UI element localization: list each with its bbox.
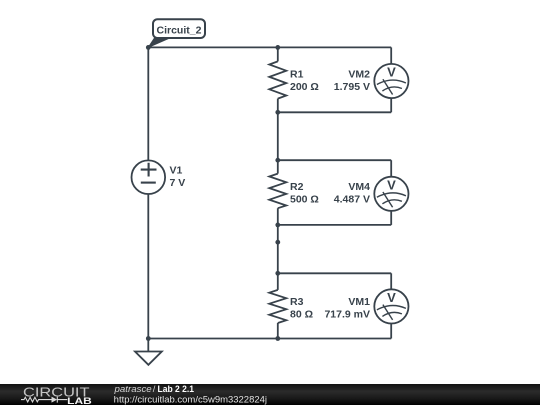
svg-text:V: V — [387, 177, 396, 192]
VM2 needle — [383, 79, 393, 94]
svg-text:Circuit_2: Circuit_2 — [157, 24, 202, 36]
VM4 meter arcs — [377, 193, 406, 204]
svg-text:LAB: LAB — [67, 396, 92, 405]
svg-text:80 Ω: 80 Ω — [290, 309, 313, 321]
wire: VM1 top stub — [390, 273, 392, 289]
svg-text:R2: R2 — [290, 181, 304, 193]
voltmeter VM1 circle — [374, 289, 408, 323]
wire: VM2 bottom stub — [390, 98, 392, 112]
node: R3 bottom junction — [275, 336, 280, 341]
node A (top-left, flag anchor) — [146, 45, 151, 50]
node: R1 bottom junction — [275, 110, 280, 115]
V1 minus sign — [141, 182, 156, 184]
wire: loop3 top horizontal — [278, 272, 391, 274]
voltmeter VM2 circle — [374, 64, 408, 98]
wire: bottom horizontal (R3 bottom to VM1 branch) — [278, 338, 391, 340]
V1 plus sign — [141, 163, 157, 177]
node: R1 top junction — [275, 45, 280, 50]
junction dots — [146, 45, 280, 341]
svg-text:200 Ω: 200 Ω — [290, 81, 319, 93]
wire: R3 bottom stub — [277, 323, 279, 339]
svg-text:VM1: VM1 — [348, 296, 370, 308]
VM1 meter arcs — [377, 305, 406, 316]
resistor R2 zigzag — [269, 174, 286, 209]
VM4 needle — [383, 192, 393, 207]
wire: R1 top stub — [277, 47, 279, 61]
node: R2 bottom junction — [275, 223, 280, 228]
wire: VM4 top stub — [390, 160, 392, 177]
wire: resistor column between loop1 and loop2 — [277, 112, 279, 160]
wire: VM1 bottom stub — [390, 323, 392, 338]
svg-text:V: V — [387, 65, 396, 80]
logo resistor zigzag and diode — [21, 397, 67, 403]
VM2 meter arcs — [377, 80, 406, 91]
wire: resistor column between loop2 and loop3 — [277, 225, 279, 273]
wire: R2 top stub — [277, 160, 279, 173]
wire: loop2 top horizontal — [278, 159, 391, 161]
wire: R2 bottom stub — [277, 208, 279, 225]
wire: top horizontal from node A to meter column — [148, 46, 391, 48]
wire: left vertical lower (V1 bottom to ground node) — [147, 194, 149, 339]
voltage source V1 circle — [132, 160, 166, 194]
svg-text:http://circuitlab.com/c5w9m332: http://circuitlab.com/c5w9m3322824j — [114, 394, 267, 404]
wire: loop2 bottom horizontal — [278, 224, 391, 226]
flag Circuit_2 box — [153, 19, 205, 38]
svg-text:/: / — [153, 383, 156, 394]
svg-text:R3: R3 — [290, 296, 304, 308]
ground triangle — [135, 352, 162, 365]
svg-text:R1: R1 — [290, 69, 304, 81]
flag Circuit_2 tail — [148, 37, 173, 48]
node: R2 top junction — [275, 158, 280, 163]
svg-text:1.795 V: 1.795 V — [334, 81, 370, 93]
wire: bottom horizontal (ground node to R3 bottom) — [148, 338, 277, 340]
svg-text:V1: V1 — [170, 165, 183, 177]
wire: R1 bottom stub — [277, 99, 279, 113]
svg-text:patrasce: patrasce — [113, 383, 151, 394]
resistor R3 zigzag — [269, 290, 286, 323]
node: mid dot between loop2 and loop3 — [275, 240, 280, 245]
resistor R1 zigzag — [269, 61, 286, 98]
node: ground junction — [146, 336, 151, 341]
voltmeter VM4 circle — [374, 177, 408, 211]
ground stem wire — [147, 339, 149, 352]
svg-text:Lab 2 2.1: Lab 2 2.1 — [158, 383, 195, 394]
svg-text:4.487 V: 4.487 V — [334, 194, 370, 206]
logo diode triangle — [52, 397, 58, 403]
wire: R3 top stub — [277, 273, 279, 290]
wire: VM4 bottom stub — [390, 211, 392, 225]
svg-text:VM2: VM2 — [348, 69, 370, 81]
wire: loop1 bottom horizontal — [278, 111, 391, 113]
svg-text:V: V — [387, 290, 396, 305]
svg-text:7 V: 7 V — [170, 177, 186, 189]
node: R3 top junction — [275, 271, 280, 276]
svg-text:500 Ω: 500 Ω — [290, 194, 319, 206]
VM1 needle — [383, 305, 393, 320]
svg-text:VM4: VM4 — [348, 181, 370, 193]
svg-text:717.9 mV: 717.9 mV — [324, 309, 370, 321]
wire: VM2 top stub — [390, 47, 392, 64]
wire: left vertical upper (node A to V1 top) — [147, 47, 149, 160]
